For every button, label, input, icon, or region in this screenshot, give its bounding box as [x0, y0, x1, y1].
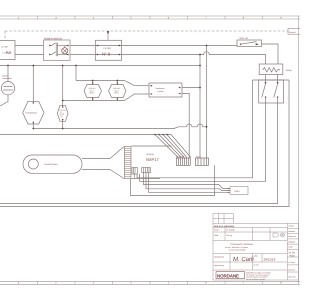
svg-text:SPD1: SPD1 — [90, 92, 95, 95]
svg-text:to SMos: to SMos — [157, 90, 164, 93]
svg-text:AL PART: AL PART — [1, 46, 9, 49]
svg-text:NORDANE: NORDANE — [217, 274, 239, 279]
svg-text:KRLL: KRLL — [235, 190, 241, 193]
svg-text:SPD2: SPD2 — [114, 92, 119, 95]
svg-text:Control Panel: Control Panel — [44, 163, 58, 166]
svg-text:Issued: Issued — [288, 225, 293, 228]
svg-text:Diagram: Diagram — [288, 240, 295, 243]
svg-text:N° change: N° change — [226, 229, 235, 232]
svg-text:(unk): (unk) — [288, 246, 292, 249]
svg-text:Approved by: Approved by — [214, 264, 224, 267]
svg-text:Scale: Scale — [214, 229, 219, 232]
svg-text:M. Carli: M. Carli — [233, 256, 254, 263]
svg-text:Transformer: Transformer — [155, 87, 165, 90]
svg-text:mat.xxx unknown: mat.xxx unknown — [214, 225, 235, 228]
svg-text:Compressor: Compressor — [26, 112, 38, 115]
svg-text:veh del territories and M6: veh del territories and M6 — [246, 278, 265, 281]
svg-text:N° draw: N° draw — [288, 261, 295, 264]
svg-text:pres: pres — [60, 116, 63, 118]
svg-text:N° 8: N° 8 — [102, 52, 111, 57]
svg-text:Sc.Da: Sc.Da — [254, 264, 259, 267]
svg-text:Safety: Safety — [286, 69, 293, 72]
svg-text:Date: Date — [254, 255, 258, 258]
svg-text:W38: W38 — [290, 255, 296, 258]
svg-text:Dest Terr: Dest Terr — [288, 275, 296, 278]
svg-text:Designed by: Designed by — [214, 256, 224, 259]
svg-text:29/11/19: 29/11/19 — [264, 257, 276, 261]
svg-text:Year gr: Year gr — [226, 234, 232, 237]
svg-text:Returned: Returned — [288, 235, 295, 238]
svg-text:85-E0-83: 85-E0-83 — [176, 155, 184, 158]
svg-text:a 2cdr under propfab: a 2cdr under propfab — [229, 248, 246, 251]
svg-text:Inspection: Inspection — [3, 77, 12, 80]
svg-text:not tol 2 alt wheel 2 2/4 tran: not tol 2 alt wheel 2 2/4 trans — [225, 246, 248, 249]
svg-text:SOHOM: SOHOM — [146, 153, 154, 156]
svg-text:—BA: —BA — [2, 50, 12, 55]
svg-text:8Q B: 8Q B — [196, 155, 201, 158]
svg-text:TOLERANCE GENERAL: TOLERANCE GENERAL — [230, 243, 254, 246]
svg-text:Filed: Filed — [214, 234, 218, 237]
svg-text:RED LID: RED LID — [240, 37, 249, 40]
svg-text:Ground: Ground — [289, 31, 296, 34]
svg-text:Release: Release — [288, 230, 295, 233]
svg-text:FILTER: FILTER — [104, 47, 112, 50]
svg-text:Qty Eng: Qty Eng — [288, 268, 295, 271]
svg-text:NXP17: NXP17 — [146, 157, 159, 162]
